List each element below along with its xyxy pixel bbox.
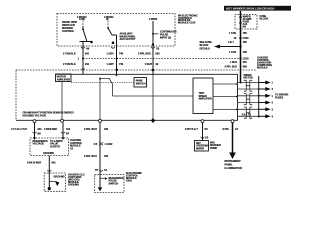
ecm label right of box <box>126 172 142 183</box>
svg-text:740: 740 <box>119 63 124 66</box>
svg-text:GROUND: GROUND <box>68 183 79 186</box>
wire w2 <box>116 35 118 74</box>
svg-text:2 PPL RED: 2 PPL RED <box>138 53 151 56</box>
wire label 1 TAN 748 <box>229 51 247 54</box>
output arrow 1 <box>258 81 274 85</box>
svg-text:C016: C016 <box>126 179 132 182</box>
power feed header bar HOT AT ALL TIMES <box>224 6 291 11</box>
wiper motor module box <box>16 74 238 120</box>
wire b4 label2 <box>84 155 109 158</box>
row 1 wire <box>238 82 259 84</box>
svg-text:C100: C100 <box>243 37 249 40</box>
switch S1 terminal <box>81 47 90 51</box>
wire label 1 BLK 401 <box>230 61 247 64</box>
svg-text:4 B: 4 B <box>94 143 98 146</box>
terminal circle C <box>33 120 36 123</box>
reference pulse dashed box <box>95 175 124 193</box>
svg-text:1 GRY: 1 GRY <box>107 63 115 66</box>
svg-text:INPUT (2): INPUT (2) <box>160 36 171 39</box>
svg-text:740: 740 <box>119 53 124 56</box>
svg-text:AMPLIFIER: AMPLIFIER <box>57 78 70 81</box>
wire w3 <box>152 46 154 75</box>
dashed link to relay box <box>71 81 134 83</box>
svg-text:952: 952 <box>156 53 161 56</box>
svg-text:ILLUMINATION: ILLUMINATION <box>225 167 243 170</box>
svg-text:3 PPL WHT: 3 PPL WHT <box>84 128 98 131</box>
svg-text:AUX OUTPUT: AUX OUTPUT <box>120 38 136 41</box>
switch S2 wash aux <box>104 16 117 44</box>
chassis control module label <box>257 57 272 70</box>
row 3 wire <box>238 95 259 97</box>
connector bracket band 2 <box>244 94 253 105</box>
wire from U1 to terminal <box>61 82 63 120</box>
output arrow 3 <box>258 94 274 98</box>
svg-text:2 PPL BLK: 2 PPL BLK <box>225 66 238 69</box>
terminal circle B <box>99 119 102 122</box>
node B and wire down <box>99 78 109 119</box>
svg-text:4 LT CLU THT: 4 LT CLU THT <box>11 128 27 131</box>
svg-text:GROUND: GROUND <box>43 152 54 155</box>
svg-text:FUSES: FUSES <box>275 97 284 100</box>
row 6 wire <box>238 113 259 116</box>
terminal circle F <box>201 120 204 123</box>
wiper switch dashed box <box>57 14 175 47</box>
svg-text:GROUND: GROUND <box>54 175 65 178</box>
instrument panel label <box>225 160 243 170</box>
svg-text:8 DK B WHT: 8 DK B WHT <box>27 162 42 165</box>
fuse F7 WIPER 25A <box>240 11 252 84</box>
switch S2 terminal <box>111 47 115 48</box>
svg-text:1 C202: 1 C202 <box>105 143 114 146</box>
fuse block label <box>260 15 269 21</box>
wire w2 label row2 <box>107 63 124 66</box>
connector bar C3 <box>258 76 260 118</box>
switch blade inside module from w2 <box>109 74 117 96</box>
wire label 1 TAN 750 <box>229 32 247 35</box>
wire b4 label <box>84 128 109 131</box>
amplifier box U1 <box>56 74 72 82</box>
svg-text:589: 589 <box>243 66 248 69</box>
wire b5 label <box>185 128 208 131</box>
svg-text:MODULE C210: MODULE C210 <box>178 22 196 25</box>
node b1 connector <box>33 132 42 136</box>
wire w3 label row2 <box>145 63 159 66</box>
node w3 module bottom diamond <box>151 118 155 123</box>
wire w2 label row1 <box>107 53 124 56</box>
svg-text:941: 941 <box>38 128 43 131</box>
chassis module label right of box <box>70 139 83 150</box>
svg-text:HOT W/WIPER SW IN LOW OR HIGH: HOT W/WIPER SW IN LOW OR HIGH <box>226 7 274 11</box>
row 4 wire <box>238 102 259 104</box>
wire b5 <box>202 123 204 141</box>
node w1-C210 <box>78 58 85 61</box>
svg-text:4 & 1: 4 & 1 <box>228 41 234 44</box>
wire b1 label <box>11 128 42 131</box>
svg-text:1 GRY: 1 GRY <box>107 53 115 56</box>
wire w3 inside module <box>152 75 154 121</box>
wire b6 heavy <box>232 123 234 154</box>
ground symbol G1 <box>55 182 59 186</box>
wire b6 label <box>223 128 239 131</box>
wire b4 <box>99 123 101 175</box>
svg-text:750: 750 <box>243 32 248 35</box>
svg-text:1 TAN: 1 TAN <box>229 32 236 35</box>
svg-text:432: 432 <box>104 128 109 131</box>
switch S2 label <box>120 33 137 42</box>
row 5 wire <box>238 108 259 110</box>
ground symbol G2 <box>98 187 103 191</box>
connector C2 dashed harness line <box>16 69 257 71</box>
ground dashed box G1 <box>44 173 65 191</box>
svg-text:8 WT B & T: 8 WT B & T <box>185 128 198 131</box>
svg-text:TP: TP <box>95 169 98 172</box>
arrow to instrument panel <box>229 153 236 160</box>
ground stud G1 <box>48 187 51 190</box>
svg-text:AMPLIFIER: AMPLIFIER <box>199 98 212 101</box>
wire label 2 PPL BLK 589 <box>225 66 248 69</box>
washer pump label <box>210 141 221 150</box>
module label right of switch box <box>178 14 198 24</box>
wire b2 label <box>44 128 71 131</box>
wiper motor label <box>244 74 253 80</box>
wire b2 <box>62 123 65 141</box>
svg-text:432: 432 <box>104 155 109 158</box>
svg-text:HOUSING VOLTAGE: HOUSING VOLTAGE <box>23 114 47 117</box>
svg-text:WIPER: WIPER <box>196 147 204 150</box>
svg-text:BLOCK: BLOCK <box>260 18 269 21</box>
U2 output wires <box>213 83 238 84</box>
svg-text:3 PPL WHT: 3 PPL WHT <box>84 155 98 158</box>
svg-text:2 WIPE: 2 WIPE <box>149 18 158 21</box>
svg-text:1 BLK: 1 BLK <box>230 61 237 64</box>
node b2 connector <box>61 132 70 136</box>
wire b1 <box>33 123 36 141</box>
svg-text:1 WHT: 1 WHT <box>145 63 153 66</box>
terminal circle A <box>61 119 64 122</box>
wire w1 <box>82 42 84 75</box>
connector C210 dashed harness line <box>83 57 249 60</box>
wire to amplifier input <box>113 95 194 97</box>
wire label 4 &amp; 1 150 <box>228 41 247 44</box>
connector C100 junction <box>234 37 250 40</box>
reference voltage dashed box <box>30 138 69 156</box>
switch S3 label <box>160 31 177 40</box>
switch S3 wipe <box>149 18 159 46</box>
svg-text:DETAILS: DETAILS <box>200 47 211 50</box>
connector bracket band 3 <box>244 107 253 118</box>
relay box K1 <box>134 78 147 88</box>
node w3-C2 diamond <box>151 68 154 71</box>
svg-text:150: 150 <box>243 41 248 44</box>
output arrow 2 <box>258 87 274 91</box>
svg-text:748: 748 <box>243 51 248 54</box>
washer pump box <box>195 141 209 152</box>
wiper motor module interior label <box>23 112 75 118</box>
node w1-C2 <box>82 69 85 70</box>
pulse wiper amplifier box U2 <box>193 78 213 114</box>
svg-text:MODULE: MODULE <box>257 67 268 70</box>
switch S3 terminal <box>151 47 160 51</box>
see fuse block details arrow <box>200 41 242 50</box>
svg-text:412: 412 <box>66 128 71 131</box>
svg-text:CONTROL: CONTROL <box>62 30 75 33</box>
wiper switch label <box>62 21 77 33</box>
svg-text:1 TAN: 1 TAN <box>229 51 236 54</box>
svg-text:941: 941 <box>52 162 57 165</box>
output arrow 4 <box>258 101 274 105</box>
wire w3 label row1 <box>138 53 160 56</box>
connector C202 <box>94 142 114 146</box>
svg-text:PUMP: PUMP <box>210 147 217 150</box>
node b3 connector <box>47 170 51 171</box>
wire b3 ground feed <box>48 156 50 174</box>
svg-text:OUTPUT: OUTPUT <box>50 145 61 148</box>
node w2-C210 <box>116 58 118 60</box>
svg-text:SWITCH: SWITCH <box>109 183 119 186</box>
fuse block dashed box <box>235 15 257 30</box>
svg-text:401: 401 <box>243 61 248 64</box>
connector bracket band 1 <box>244 80 253 91</box>
svg-text:4 DKB RED: 4 DKB RED <box>44 128 57 131</box>
svg-text:MOTOR: MOTOR <box>244 77 253 80</box>
wire w1 label row2 <box>63 63 90 66</box>
to driver fuses label <box>275 94 289 100</box>
svg-text:941: 941 <box>85 63 90 66</box>
output arrow 5 <box>258 107 274 111</box>
switch S1 wash <box>77 16 93 44</box>
output arrow 6 <box>258 114 274 118</box>
svg-text:SWITCH: SWITCH <box>136 83 146 86</box>
connector C2b <box>201 137 209 140</box>
node w2-C2 <box>116 69 118 71</box>
svg-text:VOLTAGE: VOLTAGE <box>33 143 45 146</box>
module boundary dashed left edge <box>15 70 17 120</box>
connector C1 <box>95 169 108 172</box>
svg-text:LOW: LOW <box>79 18 85 21</box>
wire w1 label row1 <box>63 53 90 56</box>
svg-text:941: 941 <box>85 53 90 56</box>
row 2 wire <box>238 88 259 90</box>
svg-text:2 TAN BLK: 2 TAN BLK <box>63 63 76 66</box>
ground label G1 <box>68 173 85 186</box>
svg-text:2 TAN BLK: 2 TAN BLK <box>63 53 76 56</box>
svg-text:8 PPL: 8 PPL <box>223 128 230 131</box>
terminal circle G <box>231 120 234 123</box>
wire b3 label <box>27 162 56 165</box>
